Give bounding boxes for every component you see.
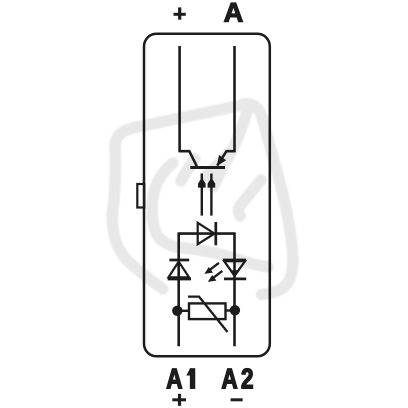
varistor RU stroke [188,297,228,332]
terminal label A1 [167,369,195,389]
diode D2 [168,260,191,279]
transistor Q1 base bar [190,166,225,169]
module body outline [144,34,270,357]
junction dot left [172,306,182,316]
junction dot right [230,305,240,315]
label minus bottom [231,398,243,401]
wire collector lead [178,46,181,152]
wire right rail [233,232,236,346]
diode D1 [198,222,216,245]
watermark logo (light gray) [112,104,293,295]
label A top [224,3,242,22]
transistor Q1 collector [180,151,197,166]
LED D3 emission arrow 2 [208,271,223,282]
side notch [137,184,144,208]
wire left rail [177,232,180,346]
varistor RU body [189,303,226,319]
wire varistor to dot-right [226,309,235,311]
light arrow 1 [198,174,206,216]
label + bottom [172,394,186,406]
wire dot-left to varistor [177,310,189,312]
LED D3 [223,260,246,279]
wire emitter lead [233,46,236,152]
LED D3 emission arrow 1 [204,263,219,274]
label + top [174,7,186,19]
wire input top [179,232,235,235]
light arrow 2 [208,174,216,216]
terminal label A2 [222,368,253,388]
transistor Q1 emitter [217,151,234,165]
transistor Q1 emitter arrow [217,155,227,166]
